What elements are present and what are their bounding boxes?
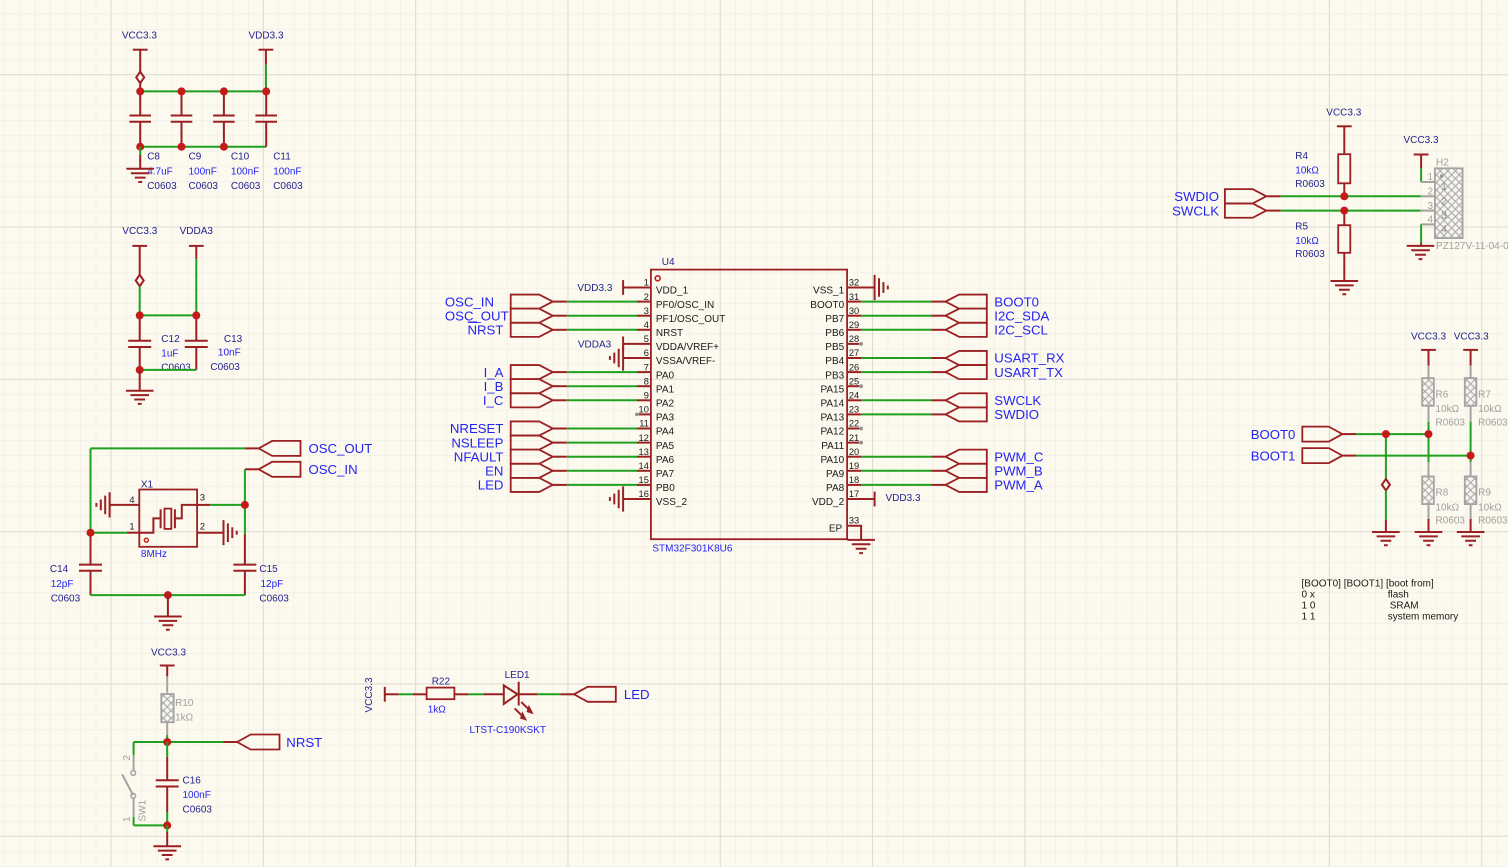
svg-text:OSC_IN: OSC_IN — [445, 294, 494, 309]
svg-text:5: 5 — [644, 334, 649, 344]
svg-text:VDD_1: VDD_1 — [656, 286, 689, 297]
port SWDIO — [1225, 189, 1266, 203]
capacitor C12 — [139, 315, 141, 370]
resistor R9 — [1470, 456, 1472, 462]
svg-text:VCC3.3: VCC3.3 — [364, 677, 375, 712]
ground (R8) — [1415, 532, 1443, 545]
svg-text:3: 3 — [1441, 211, 1447, 222]
capacitor C16 — [166, 757, 168, 812]
svg-text:PA14: PA14 — [820, 399, 844, 410]
port EN (to pin 14) — [511, 464, 553, 478]
svg-text:10nF: 10nF — [218, 347, 241, 358]
svg-text:PA8: PA8 — [826, 483, 845, 494]
svg-text:PA15: PA15 — [820, 384, 844, 395]
svg-text:NRESET: NRESET — [450, 421, 504, 436]
port SWCLK (from pin 24) — [946, 393, 987, 407]
ground (BOOT0 pulldown) — [1372, 532, 1400, 545]
svg-text:PA3: PA3 — [656, 413, 675, 424]
resistor R10 — [166, 676, 168, 692]
svg-text:C13: C13 — [224, 334, 243, 345]
svg-text:20: 20 — [849, 447, 859, 457]
svg-text:14: 14 — [639, 461, 649, 471]
capacitor C15 — [244, 505, 246, 535]
svg-text:VDDA3: VDDA3 — [180, 226, 214, 237]
node crystal ground junction — [164, 591, 172, 599]
svg-text:10: 10 — [639, 405, 649, 415]
svg-text:PA7: PA7 — [656, 469, 675, 480]
ground (C12/C13) — [126, 391, 154, 404]
svg-text:BOOT1: BOOT1 — [1251, 448, 1296, 463]
svg-text:PA0: PA0 — [656, 370, 675, 381]
svg-text:VDD3.3: VDD3.3 — [886, 493, 921, 504]
wire USART_TX — [861, 371, 932, 373]
wire NRST row — [224, 741, 238, 743]
svg-text:PF0/OSC_IN: PF0/OSC_IN — [656, 300, 714, 311]
svg-text:PB0: PB0 — [656, 483, 675, 494]
wire I_B — [553, 385, 567, 387]
ground (crystal) — [154, 617, 182, 630]
svg-text:LED: LED — [478, 478, 504, 493]
wire to ground — [139, 147, 141, 155]
svg-text:PB3: PB3 — [825, 370, 844, 381]
svg-text:system memory: system memory — [1388, 612, 1459, 623]
svg-text:C0603: C0603 — [189, 181, 219, 192]
svg-text:1uF: 1uF — [161, 349, 178, 360]
wire bottom — [91, 594, 245, 596]
svg-text:I_B: I_B — [484, 379, 504, 394]
svg-text:EP: EP — [829, 524, 843, 535]
svg-text:12: 12 — [639, 433, 649, 443]
svg-text:C0603: C0603 — [273, 181, 303, 192]
svg-text:PA9: PA9 — [826, 469, 845, 480]
wire SWDIO — [861, 413, 932, 415]
svg-text:23: 23 — [849, 405, 859, 415]
svg-text:SWCLK: SWCLK — [1172, 203, 1219, 218]
port OSC_IN — [259, 462, 301, 477]
svg-text:2: 2 — [122, 755, 133, 761]
svg-text:21: 21 — [849, 433, 859, 443]
capacitor C9 — [181, 91, 183, 146]
svg-text:11: 11 — [639, 419, 649, 429]
wire OSC_OUT run — [245, 447, 259, 449]
svg-text:PF1/OSC_OUT: PF1/OSC_OUT — [656, 314, 725, 325]
svg-text:U4: U4 — [662, 257, 675, 268]
svg-text:R22: R22 — [432, 677, 451, 688]
node SWCLK/R5 junction — [1340, 207, 1348, 215]
svg-text:BOOT0: BOOT0 — [1251, 427, 1296, 442]
wire VCC3.3 stem — [139, 50, 141, 72]
svg-text:C0603: C0603 — [231, 181, 261, 192]
node BOOT1/R7/R9 junction — [1467, 452, 1475, 460]
wire LED — [553, 484, 567, 486]
svg-text:OSC_IN: OSC_IN — [309, 462, 358, 477]
wire PWM_C — [861, 456, 932, 458]
svg-text:1: 1 — [1427, 172, 1433, 183]
crystal internals — [139, 518, 160, 532]
svg-text:VDD3.3: VDD3.3 — [248, 31, 283, 42]
wire VDD3.3 stem — [265, 50, 267, 65]
svg-text:100nF: 100nF — [273, 166, 301, 177]
svg-text:10kΩ: 10kΩ — [1295, 166, 1319, 177]
svg-text:4: 4 — [129, 495, 134, 505]
svg-text:C0603: C0603 — [147, 181, 177, 192]
ground (EP) — [847, 540, 875, 553]
ground (VSS_1 pin 32) — [875, 275, 888, 300]
svg-text:PA2: PA2 — [656, 399, 675, 410]
svg-text:4: 4 — [644, 320, 649, 330]
ground (VSS_2 pin 16) — [610, 486, 623, 511]
port PWM_A (from pin 18) — [946, 478, 987, 492]
svg-text:C0603: C0603 — [51, 593, 81, 604]
port NRESET (to pin 11) — [511, 421, 553, 435]
wire OSC_OUT — [553, 315, 567, 317]
svg-text:26: 26 — [849, 362, 859, 372]
wire bottom rail — [140, 146, 266, 148]
svg-text:C0603: C0603 — [183, 805, 213, 816]
port BOOT0 — [1302, 427, 1342, 442]
svg-text:VCC3.3: VCC3.3 — [1326, 107, 1361, 118]
svg-text:C14: C14 — [50, 564, 69, 575]
port I_B (to pin 8) — [511, 379, 553, 393]
wire NRST — [553, 329, 567, 331]
svg-text:PB7: PB7 — [825, 314, 844, 325]
svg-text:I2C_SCL: I2C_SCL — [994, 323, 1048, 338]
svg-text:R6: R6 — [1436, 390, 1449, 401]
svg-text:100nF: 100nF — [189, 166, 217, 177]
svg-text:X1: X1 — [141, 480, 154, 491]
wire to port — [538, 693, 561, 695]
svg-text:1: 1 — [129, 522, 134, 532]
svg-text:VDDA/VREF+: VDDA/VREF+ — [656, 342, 719, 353]
svg-text:R4: R4 — [1295, 151, 1308, 162]
svg-text:VCC3.3: VCC3.3 — [1411, 331, 1446, 342]
svg-text:PA12: PA12 — [820, 427, 844, 438]
wire top rail — [140, 90, 266, 92]
svg-text:2: 2 — [200, 522, 205, 532]
ground (R5) — [1331, 281, 1359, 294]
no-ERC diamond — [136, 72, 144, 83]
svg-text:16: 16 — [639, 489, 649, 499]
svg-text:C0603: C0603 — [161, 363, 191, 374]
wire bottom — [134, 824, 168, 826]
svg-text:PA1: PA1 — [656, 384, 675, 395]
resistor R7 — [1470, 350, 1472, 366]
node C16/SW1 ground junction — [163, 821, 171, 829]
port I2C_SDA (from pin 30) — [946, 309, 987, 323]
svg-text:SWDIO: SWDIO — [1174, 189, 1219, 204]
svg-text:SRAM: SRAM — [1390, 600, 1419, 611]
ground (R9) — [1457, 532, 1485, 545]
svg-text:3: 3 — [644, 306, 649, 316]
svg-text:VDD_2: VDD_2 — [812, 497, 845, 508]
svg-text:C0603: C0603 — [259, 593, 289, 604]
pin 4 wire + ground — [110, 504, 140, 506]
svg-text:VSSA/VREF-: VSSA/VREF- — [656, 356, 715, 367]
node C13 top junction — [192, 311, 200, 319]
svg-text:PWM_A: PWM_A — [994, 478, 1043, 493]
svg-text:3: 3 — [200, 492, 205, 502]
capacitor C11 — [265, 91, 267, 146]
svg-text:30: 30 — [849, 306, 859, 316]
svg-text:flash: flash — [1388, 589, 1409, 600]
svg-text:1kΩ: 1kΩ — [175, 713, 194, 724]
svg-text:C16: C16 — [183, 776, 202, 787]
svg-text:NRST: NRST — [467, 323, 503, 338]
svg-text:VDD3.3: VDD3.3 — [577, 283, 612, 294]
port PWM_C (from pin 20) — [946, 450, 987, 464]
svg-text:[BOOT0] [BOOT1] [boot from]: [BOOT0] [BOOT1] [boot from] — [1302, 578, 1434, 589]
svg-text:I_C: I_C — [483, 393, 504, 408]
port NSLEEP (to pin 12) — [511, 436, 553, 450]
H2 pin 1 — [1421, 181, 1435, 183]
power VDD3.3 at pin 1 — [622, 280, 624, 295]
port USART_TX (from pin 26) — [946, 365, 987, 379]
svg-text:10kΩ: 10kΩ — [1436, 502, 1460, 513]
svg-text:VSS_2: VSS_2 — [656, 497, 688, 508]
svg-text:C10: C10 — [231, 152, 250, 163]
node C12 bottom junction — [136, 366, 144, 374]
svg-text:LTST-C190KSKT: LTST-C190KSKT — [470, 725, 547, 736]
port SWDIO (from pin 23) — [946, 407, 987, 421]
node C12 top junction — [136, 311, 144, 319]
svg-text:4: 4 — [1427, 215, 1433, 226]
pin 3 wire — [197, 504, 210, 506]
node SWDIO/R4 junction — [1340, 192, 1348, 200]
svg-text:R0603: R0603 — [1436, 515, 1466, 526]
power VDDA3 at pin 5 — [622, 337, 624, 352]
svg-text:33: 33 — [849, 516, 859, 526]
pin 2 wire + ground — [197, 532, 223, 534]
svg-text:I2C_SDA: I2C_SDA — [994, 308, 1049, 323]
svg-text:10kΩ: 10kΩ — [1436, 404, 1460, 415]
ground (X1 pin2) — [224, 520, 237, 545]
svg-text:C11: C11 — [273, 152, 291, 163]
svg-text:R7: R7 — [1478, 390, 1491, 401]
pin 1 wire — [127, 532, 140, 534]
port I_A (to pin 7) — [511, 365, 553, 379]
LED arrows — [521, 702, 528, 709]
wire SWCLK row — [1266, 210, 1280, 212]
port NRST (to pin 4) — [511, 323, 553, 337]
wire PWM_B — [861, 470, 932, 472]
svg-text:C9: C9 — [189, 152, 202, 163]
wire bottom rail — [140, 369, 197, 371]
svg-text:OSC_OUT: OSC_OUT — [445, 308, 509, 323]
wire I2C_SCL — [861, 329, 932, 331]
svg-text:R0603: R0603 — [1478, 515, 1508, 526]
node NRST junction — [163, 738, 171, 746]
svg-text:VCC3.3: VCC3.3 — [151, 648, 186, 659]
resistor R8 — [1428, 434, 1430, 462]
svg-text:H2: H2 — [1436, 158, 1449, 169]
node junctions top rail — [136, 87, 144, 95]
wire I_A — [553, 371, 567, 373]
svg-text:10kΩ: 10kΩ — [1478, 502, 1502, 513]
port I2C_SCL (from pin 29) — [946, 323, 987, 337]
node OSC_IN/C15 junction — [241, 501, 249, 509]
wire BOOT1 row — [1342, 455, 1356, 457]
wire top rail — [140, 314, 197, 316]
ground (X1 pin4) — [96, 492, 109, 517]
svg-text:R0603: R0603 — [1295, 249, 1325, 260]
wire BOOT0 to ground via diamond — [1385, 434, 1387, 479]
svg-text:NRST: NRST — [656, 328, 683, 339]
svg-text:13: 13 — [639, 447, 649, 457]
capacitor C13 — [195, 315, 197, 370]
capacitor C14 — [90, 533, 92, 595]
port NFAULT (to pin 13) — [511, 450, 553, 464]
svg-text:PWM_B: PWM_B — [994, 464, 1043, 479]
svg-text:25: 25 — [849, 376, 859, 386]
pin 1 indicator U4 — [655, 276, 660, 281]
svg-text:12pF: 12pF — [261, 579, 284, 590]
port USART_RX (from pin 27) — [946, 351, 987, 365]
capacitor C16 — [166, 742, 168, 757]
svg-text:R0603: R0603 — [1478, 417, 1508, 428]
wire I2C_SDA — [861, 315, 932, 317]
svg-text:BOOT0: BOOT0 — [810, 300, 844, 311]
svg-text:1: 1 — [122, 816, 133, 822]
svg-text:PA11: PA11 — [821, 441, 844, 452]
capacitor C8 — [139, 91, 141, 146]
svg-text:29: 29 — [849, 320, 859, 330]
wire EN — [553, 470, 567, 472]
svg-text:NFAULT: NFAULT — [454, 449, 504, 464]
node junctions bottom rail — [136, 143, 144, 151]
port I_C (to pin 9) — [511, 393, 553, 407]
crystal X1 body — [139, 490, 197, 547]
svg-text:24: 24 — [849, 391, 859, 401]
svg-text:2: 2 — [1427, 187, 1433, 198]
svg-text:32: 32 — [849, 278, 859, 288]
svg-text:USART_TX: USART_TX — [994, 365, 1063, 380]
port BOOT1 — [1302, 448, 1342, 463]
svg-text:EN: EN — [485, 464, 503, 479]
resistor R6 — [1428, 350, 1430, 366]
resistor R5 — [1343, 211, 1345, 226]
power VDD3.3 at pin 17 — [874, 492, 876, 507]
svg-text:R0603: R0603 — [1295, 179, 1325, 190]
svg-text:PZ127V-11-04-0: PZ127V-11-04-0 — [1436, 241, 1508, 252]
svg-text:PA13: PA13 — [820, 413, 844, 424]
svg-text:0 x: 0 x — [1302, 589, 1315, 600]
H2 pin 4 — [1421, 223, 1435, 225]
svg-text:15: 15 — [639, 475, 649, 485]
svg-text:PA10: PA10 — [820, 455, 844, 466]
H2 pin 3 — [1421, 210, 1435, 212]
svg-text:2: 2 — [1441, 196, 1447, 207]
node BOOT0 junction A — [1382, 430, 1390, 438]
pin 1 indicator — [144, 538, 148, 542]
H2 pin 2 — [1421, 195, 1435, 197]
port OSC_IN (to pin 2) — [511, 295, 553, 309]
svg-text:LED: LED — [624, 687, 650, 702]
port LED — [574, 687, 616, 702]
svg-text:1: 1 — [1441, 182, 1447, 193]
svg-text:1kΩ: 1kΩ — [428, 705, 447, 716]
wire NFAULT — [553, 456, 567, 458]
svg-text:VCC3.3: VCC3.3 — [122, 226, 157, 237]
H2 pin 4 to ground — [1420, 224, 1422, 243]
svg-text:28: 28 — [849, 334, 859, 344]
svg-text:1 0: 1 0 — [1302, 600, 1316, 611]
node OSC_OUT/C14 junction — [87, 529, 95, 537]
svg-text:VDDA3: VDDA3 — [578, 339, 612, 350]
wire NSLEEP — [553, 442, 567, 444]
svg-text:100nF: 100nF — [231, 166, 259, 177]
capacitor C15 — [244, 535, 246, 596]
svg-text:C12: C12 — [161, 334, 180, 345]
svg-text:SW1: SW1 — [137, 799, 148, 821]
port NRST — [237, 735, 279, 750]
wire NRESET — [553, 428, 567, 430]
svg-text:6: 6 — [644, 348, 649, 358]
wire SWDIO row — [1266, 195, 1280, 197]
svg-text:PB5: PB5 — [825, 342, 844, 353]
svg-text:8: 8 — [644, 376, 649, 386]
svg-text:PA4: PA4 — [656, 427, 675, 438]
ground (reset) — [153, 846, 181, 859]
svg-text:SWCLK: SWCLK — [994, 393, 1041, 408]
resistor R22 — [413, 693, 427, 695]
svg-text:10kΩ: 10kΩ — [1295, 236, 1319, 247]
svg-text:12pF: 12pF — [51, 579, 74, 590]
svg-text:3: 3 — [1427, 201, 1433, 212]
svg-text:2: 2 — [644, 292, 649, 302]
no-ERC diamond — [136, 275, 144, 286]
wire OSC_IN run — [245, 468, 259, 470]
svg-text:VSS_1: VSS_1 — [813, 286, 845, 297]
wire BOOT0 — [861, 301, 932, 303]
switch SW1 — [133, 742, 135, 755]
svg-text:PWM_C: PWM_C — [994, 449, 1044, 464]
ground (C8 bank) — [126, 169, 154, 182]
svg-text:VCC3.3: VCC3.3 — [122, 31, 157, 42]
svg-text:7: 7 — [644, 362, 649, 372]
svg-text:PA6: PA6 — [656, 455, 675, 466]
svg-text:STM32F301K8U6: STM32F301K8U6 — [652, 544, 732, 555]
svg-text:R10: R10 — [175, 698, 194, 709]
svg-text:10kΩ: 10kΩ — [1478, 404, 1502, 415]
svg-text:22: 22 — [849, 419, 859, 429]
wire BOOT0 row — [1342, 433, 1356, 435]
svg-text:NSLEEP: NSLEEP — [451, 435, 503, 450]
svg-text:VCC3.3: VCC3.3 — [1403, 135, 1438, 146]
header H2 — [1435, 168, 1463, 238]
svg-text:VCC3.3: VCC3.3 — [1454, 331, 1489, 342]
svg-text:17: 17 — [849, 489, 859, 499]
svg-text:31: 31 — [849, 292, 859, 302]
svg-text:R5: R5 — [1295, 221, 1308, 232]
svg-text:C15: C15 — [259, 564, 278, 575]
svg-text:18: 18 — [849, 475, 859, 485]
svg-text:NRST: NRST — [286, 735, 322, 750]
svg-text:LED1: LED1 — [505, 670, 530, 681]
ground (VSSA pin 6) — [610, 345, 623, 370]
wire I_C — [553, 399, 567, 401]
svg-text:BOOT0: BOOT0 — [994, 294, 1039, 309]
wire PWM_A — [861, 484, 932, 486]
wire — [468, 693, 483, 695]
port LED (to pin 15) — [511, 478, 553, 492]
svg-text:PB4: PB4 — [825, 356, 844, 367]
svg-text:PA5: PA5 — [656, 441, 675, 452]
wire USART_RX — [861, 357, 932, 359]
wire OSC_IN — [553, 301, 567, 303]
svg-text:C0603: C0603 — [210, 362, 240, 373]
ground (H2) — [1407, 246, 1435, 259]
svg-text:USART_RX: USART_RX — [994, 351, 1064, 366]
